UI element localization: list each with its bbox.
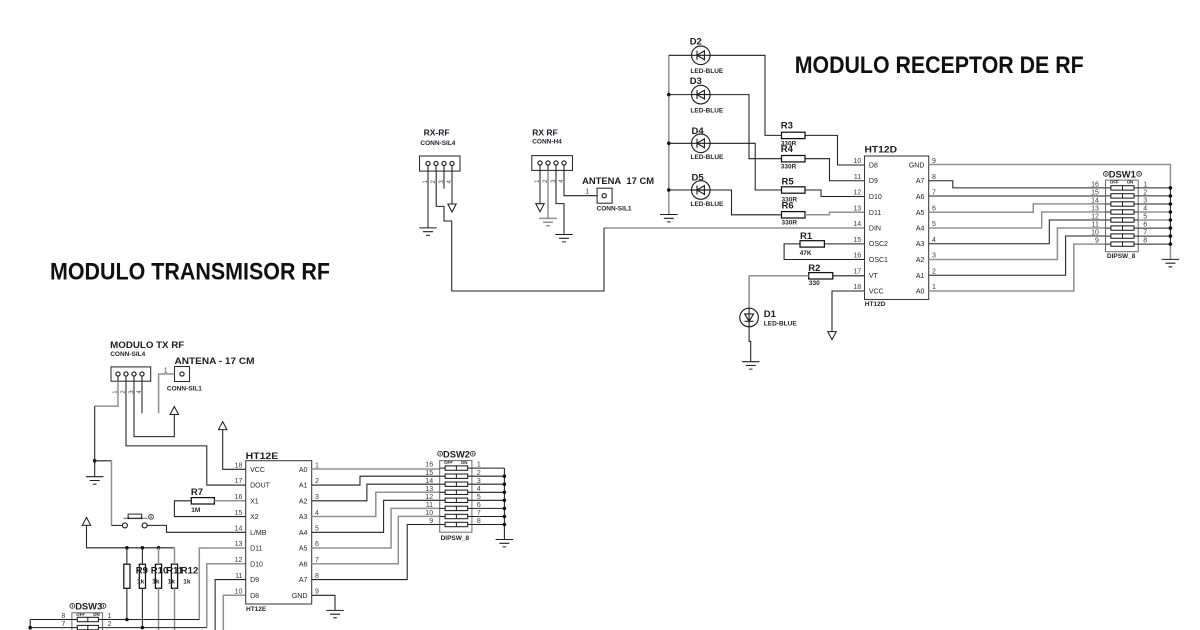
svg-text:DSW2: DSW2: [443, 449, 470, 460]
LED D5: [691, 173, 725, 208]
wire: [103, 627, 207, 629]
wire: [1138, 195, 1170, 197]
svg-text:16: 16: [1091, 182, 1099, 189]
svg-text:7: 7: [315, 557, 319, 564]
wire: [1138, 227, 1170, 229]
svg-text:11: 11: [426, 502, 433, 509]
connector J? RX-RF CONN-SIL4: [420, 128, 461, 184]
wire A2 net: [312, 484, 440, 501]
svg-text:OSC2: OSC2: [869, 241, 888, 248]
wire: [141, 381, 143, 413]
junction dots DSW1 bus: [1169, 186, 1173, 246]
power terminal arrow: [219, 422, 227, 430]
svg-text:D4: D4: [692, 126, 705, 137]
svg-text:12: 12: [425, 494, 433, 501]
svg-text:ANTENA - 17 CM: ANTENA - 17 CM: [175, 356, 255, 367]
svg-text:DIN: DIN: [869, 226, 881, 233]
wire VCC net: [832, 291, 865, 332]
wire: [312, 595, 335, 610]
wire: [749, 327, 751, 362]
svg-text:2: 2: [108, 621, 112, 628]
svg-text:VCC: VCC: [250, 467, 265, 474]
svg-text:13: 13: [853, 205, 861, 212]
resistor R10: [139, 564, 145, 588]
svg-text:1k: 1k: [152, 579, 160, 586]
resistor R7: [191, 487, 215, 514]
svg-text:A6: A6: [916, 194, 925, 201]
svg-text:ANTENA 17 CM: ANTENA 17 CM: [582, 176, 654, 187]
svg-text:LED-BLUE: LED-BLUE: [691, 154, 725, 161]
svg-text:2: 2: [932, 268, 936, 275]
svg-text:GND: GND: [909, 163, 925, 170]
svg-text:1k: 1k: [168, 579, 176, 586]
DIP switch DSW3: [61, 602, 111, 630]
wire: [29, 620, 31, 630]
svg-text:D5: D5: [692, 173, 705, 184]
svg-text:16: 16: [425, 462, 433, 469]
svg-text:13: 13: [235, 541, 243, 548]
svg-text:CONN-SIL4: CONN-SIL4: [110, 351, 145, 358]
DIP switch DSW1: [1091, 170, 1147, 252]
wire A6 net: [312, 516, 440, 563]
wire: [472, 507, 505, 509]
wire A5 net: [929, 204, 1106, 212]
IC HT12D: [853, 145, 936, 309]
svg-text:D11: D11: [250, 546, 262, 553]
wire D10 net: [207, 564, 246, 628]
svg-text:18: 18: [853, 284, 861, 291]
svg-text:MODULO TX RF: MODULO TX RF: [110, 340, 184, 351]
svg-text:4: 4: [932, 237, 936, 244]
svg-text:R12: R12: [181, 565, 198, 576]
wire: [1138, 235, 1170, 237]
svg-text:17: 17: [235, 478, 243, 485]
svg-text:A1: A1: [916, 273, 925, 280]
svg-text:8: 8: [932, 174, 936, 181]
svg-text:HT12E: HT12E: [246, 606, 267, 613]
resistor R2: [808, 263, 833, 287]
svg-text:A0: A0: [299, 467, 308, 474]
svg-text:MODULO RECEPTOR DE RF: MODULO RECEPTOR DE RF: [795, 52, 1084, 79]
svg-text:R3: R3: [781, 121, 793, 132]
svg-text:GND: GND: [292, 593, 308, 600]
svg-text:11: 11: [235, 573, 242, 580]
wire: [174, 548, 176, 630]
svg-text:A5: A5: [299, 546, 308, 553]
svg-text:R1: R1: [800, 231, 813, 242]
svg-text:1: 1: [932, 284, 936, 291]
wire A1 net: [312, 476, 440, 485]
svg-text:10: 10: [235, 589, 243, 596]
svg-text:D10: D10: [869, 194, 882, 201]
input terminal arrow: [170, 407, 178, 415]
DIP switch DSW2: [425, 449, 481, 532]
wire A2 net: [929, 228, 1106, 260]
wire: [669, 190, 782, 215]
svg-text:17: 17: [853, 268, 861, 275]
wire: [112, 524, 123, 526]
wire: [126, 548, 128, 620]
ground: [660, 215, 678, 222]
svg-text:15: 15: [425, 470, 433, 477]
svg-text:9: 9: [1095, 238, 1099, 245]
push button: [122, 514, 153, 528]
svg-text:VT: VT: [869, 273, 879, 280]
svg-text:A4: A4: [299, 530, 308, 537]
svg-text:D1: D1: [764, 309, 777, 320]
junction: [667, 142, 671, 146]
wire: [824, 243, 864, 245]
wire: [564, 170, 597, 195]
svg-text:LED-BLUE: LED-BLUE: [764, 321, 798, 328]
resistor R9: [124, 564, 130, 588]
svg-text:13: 13: [1091, 206, 1099, 213]
svg-text:A4: A4: [916, 226, 925, 233]
wire A0 net: [312, 468, 440, 470]
wire: [95, 460, 112, 462]
wire: [472, 524, 505, 526]
svg-text:DSW1: DSW1: [1109, 170, 1137, 181]
svg-text:11: 11: [1092, 222, 1099, 229]
svg-text:12: 12: [1091, 214, 1099, 221]
svg-text:HT12E: HT12E: [246, 451, 279, 462]
svg-text:9: 9: [429, 518, 433, 525]
wire: [1138, 243, 1170, 245]
svg-text:VCC: VCC: [869, 289, 884, 296]
svg-text:CONN-SIL4: CONN-SIL4: [420, 140, 455, 147]
svg-text:CONN-SIL1: CONN-SIL1: [597, 205, 632, 212]
svg-text:HT12D: HT12D: [865, 145, 898, 156]
svg-text:3: 3: [932, 253, 936, 260]
input terminal arrow: [536, 204, 544, 212]
svg-text:12: 12: [235, 557, 243, 564]
svg-text:18: 18: [235, 463, 243, 470]
wire A4 net: [929, 212, 1106, 228]
wire resistor bus: [87, 525, 175, 547]
wire D11 net: [199, 548, 245, 619]
svg-text:6: 6: [932, 205, 936, 212]
ground: [1162, 259, 1180, 266]
wire DSW1 ground bus: [1169, 188, 1171, 244]
junction dots DSW2 bus: [503, 474, 507, 526]
wire A6 net: [929, 195, 1106, 197]
svg-text:LED-BLUE: LED-BLUE: [690, 107, 724, 114]
junction: [667, 188, 671, 192]
resistor R5: [782, 177, 806, 204]
svg-text:A1: A1: [299, 483, 308, 490]
svg-text:A2: A2: [916, 257, 925, 264]
wire: [94, 461, 96, 477]
svg-text:14: 14: [425, 478, 433, 485]
ground: [326, 610, 344, 617]
LED D3: [690, 76, 724, 114]
wire: [443, 171, 445, 189]
svg-text:RX RF: RX RF: [532, 128, 558, 138]
wire: [669, 143, 782, 190]
svg-text:A7: A7: [916, 178, 925, 185]
svg-text:MODULO TRANSMISOR RF: MODULO TRANSMISOR RF: [50, 258, 330, 285]
wire: [539, 170, 541, 203]
svg-text:R7: R7: [191, 487, 203, 498]
junction: [28, 626, 32, 630]
svg-text:D9: D9: [869, 178, 878, 185]
wire: [134, 381, 174, 436]
IC HT12E: [235, 451, 319, 613]
svg-text:DIPSW_8: DIPSW_8: [441, 535, 470, 542]
svg-text:ON: ON: [461, 460, 468, 465]
svg-text:X2: X2: [250, 514, 259, 521]
svg-text:D8: D8: [869, 163, 878, 170]
wire DSW2 ground bus: [503, 468, 505, 539]
svg-text:D11: D11: [869, 210, 881, 217]
svg-text:8: 8: [315, 573, 319, 580]
wire: [158, 548, 160, 630]
wire: [94, 406, 96, 461]
svg-text:13: 13: [425, 486, 433, 493]
wire A4 net: [312, 500, 440, 532]
svg-text:LED-BLUE: LED-BLUE: [691, 201, 725, 208]
wire: [472, 516, 505, 518]
svg-text:1M: 1M: [191, 507, 200, 514]
svg-text:5: 5: [932, 221, 936, 228]
svg-text:15: 15: [853, 237, 861, 244]
wire A5 net: [312, 508, 440, 548]
svg-text:D9: D9: [250, 577, 259, 584]
wire: [427, 171, 429, 228]
wire: [805, 212, 865, 215]
svg-text:14: 14: [853, 221, 861, 228]
wire: [805, 190, 865, 197]
svg-text:DOUT: DOUT: [250, 483, 271, 490]
junction: [141, 626, 145, 630]
labels R9 R10 R11 R12: [136, 565, 198, 585]
svg-text:ON: ON: [93, 612, 100, 617]
svg-text:4: 4: [315, 510, 319, 517]
wire: [472, 483, 505, 485]
svg-text:10: 10: [425, 510, 433, 517]
svg-text:5: 5: [315, 526, 319, 533]
svg-text:A6: A6: [299, 561, 308, 568]
svg-text:RX-RF: RX-RF: [424, 128, 450, 138]
svg-text:D2: D2: [690, 37, 702, 48]
svg-text:16: 16: [853, 253, 861, 260]
wire A0 net: [929, 244, 1106, 291]
resistor R12: [171, 564, 177, 588]
power terminal arrow: [82, 517, 90, 525]
ground: [86, 477, 104, 484]
svg-text:OFF: OFF: [76, 612, 85, 617]
svg-text:A7: A7: [299, 577, 308, 584]
svg-text:1k: 1k: [183, 579, 191, 586]
svg-text:R6: R6: [782, 201, 794, 212]
wire LED cathode bus: [668, 55, 670, 214]
svg-text:A2: A2: [299, 498, 308, 505]
wire: [669, 55, 782, 135]
svg-text:47K: 47K: [800, 250, 812, 257]
wire: [472, 475, 505, 477]
wire: [436, 171, 604, 291]
wire A3 net: [929, 220, 1106, 244]
ground: [742, 362, 760, 369]
wire: [1138, 211, 1170, 213]
wire: [784, 244, 864, 260]
wire: [223, 430, 246, 470]
svg-text:1k: 1k: [137, 579, 145, 586]
svg-text:D8: D8: [250, 593, 259, 600]
wire: [147, 525, 246, 532]
svg-text:12: 12: [853, 190, 861, 197]
svg-text:DSW3: DSW3: [75, 602, 102, 613]
junction dots: [125, 546, 160, 550]
junction: [93, 459, 97, 463]
wire: [141, 548, 143, 628]
wire: [1169, 244, 1171, 259]
wire: [669, 95, 782, 159]
resistor R1: [800, 231, 825, 257]
wire A3 net: [312, 492, 440, 516]
resistor R6: [782, 201, 806, 227]
wire: [1138, 203, 1170, 205]
svg-text:16: 16: [235, 494, 243, 501]
svg-text:6: 6: [315, 541, 319, 548]
wire DIN net: [604, 227, 865, 229]
wire: [1138, 187, 1170, 189]
svg-text:R9: R9: [136, 565, 148, 576]
LED D2: [690, 37, 724, 75]
wire D9 net: [215, 580, 246, 630]
junction: [125, 618, 129, 622]
svg-text:X1: X1: [250, 498, 259, 505]
svg-text:330: 330: [809, 280, 820, 287]
svg-text:OSC1: OSC1: [869, 257, 888, 264]
svg-text:OFF: OFF: [444, 460, 453, 465]
wire: [805, 159, 865, 181]
svg-text:CONN-H4: CONN-H4: [532, 139, 562, 146]
wire A1 net: [929, 236, 1106, 275]
wire: [103, 619, 200, 621]
svg-text:A0: A0: [916, 289, 925, 296]
wire: [95, 381, 118, 406]
svg-text:LED-BLUE: LED-BLUE: [690, 68, 724, 75]
resistor R3: [781, 121, 805, 148]
svg-text:A3: A3: [299, 514, 308, 521]
wire: [111, 461, 113, 526]
svg-text:9: 9: [315, 589, 319, 596]
svg-text:A3: A3: [916, 241, 925, 248]
svg-text:A5: A5: [916, 210, 925, 217]
wire: [556, 170, 564, 234]
svg-text:1: 1: [585, 189, 589, 196]
connector MODULO TX RF CONN-SIL4: [110, 340, 184, 394]
svg-text:R5: R5: [782, 177, 795, 188]
wire: [214, 500, 245, 502]
wire: [472, 499, 505, 501]
connector RX RF CONN-H4: [532, 128, 573, 183]
svg-text:11: 11: [854, 174, 861, 181]
svg-text:15: 15: [235, 510, 243, 517]
wire: [126, 381, 246, 485]
svg-text:R4: R4: [781, 144, 794, 155]
input terminal arrow: [448, 204, 456, 212]
wire GND net: [929, 165, 1171, 188]
resistor R11: [155, 564, 161, 588]
ground: [496, 540, 514, 547]
power terminal arrow: [828, 332, 836, 340]
svg-text:1: 1: [108, 613, 112, 620]
wire: [174, 501, 245, 517]
svg-text:R2: R2: [808, 263, 820, 274]
wire D8 net: [223, 595, 245, 630]
svg-text:10: 10: [1091, 230, 1099, 237]
wire: [472, 467, 505, 469]
svg-text:14: 14: [1091, 198, 1099, 205]
wire A7 net: [312, 525, 440, 580]
LED D4: [691, 126, 725, 161]
wire: [451, 171, 453, 204]
svg-text:D3: D3: [690, 76, 702, 87]
svg-text:DIPSW_8: DIPSW_8: [1107, 253, 1136, 260]
ground: [555, 235, 573, 242]
connector ANTENA CONN-SIL1 TX: [164, 356, 255, 392]
resistor R4: [781, 144, 805, 171]
svg-text:2: 2: [315, 478, 319, 485]
wire: [1138, 219, 1170, 221]
wire: [159, 374, 175, 413]
svg-text:330R: 330R: [782, 219, 798, 226]
wire: [805, 135, 865, 165]
ground: [419, 228, 437, 235]
svg-text:L/MB: L/MB: [250, 530, 267, 537]
ground: [539, 218, 557, 225]
svg-text:10: 10: [853, 158, 861, 165]
svg-text:D10: D10: [250, 561, 263, 568]
LED D1: [740, 308, 798, 327]
svg-text:HT12D: HT12D: [865, 301, 886, 308]
wire: [472, 491, 505, 493]
svg-text:3: 3: [315, 494, 319, 501]
connector ANTENA CONN-SIL1: [582, 176, 654, 212]
wire: [30, 627, 72, 629]
svg-text:15: 15: [1091, 190, 1099, 197]
wire: [547, 170, 549, 218]
junction: [667, 93, 671, 97]
svg-text:14: 14: [235, 526, 243, 533]
wire A7 net: [929, 181, 1106, 188]
svg-text:330R: 330R: [781, 164, 797, 171]
svg-text:CONN-SIL1: CONN-SIL1: [167, 385, 202, 392]
wire: [30, 619, 72, 621]
wire: [833, 275, 865, 277]
wire: [749, 276, 809, 308]
